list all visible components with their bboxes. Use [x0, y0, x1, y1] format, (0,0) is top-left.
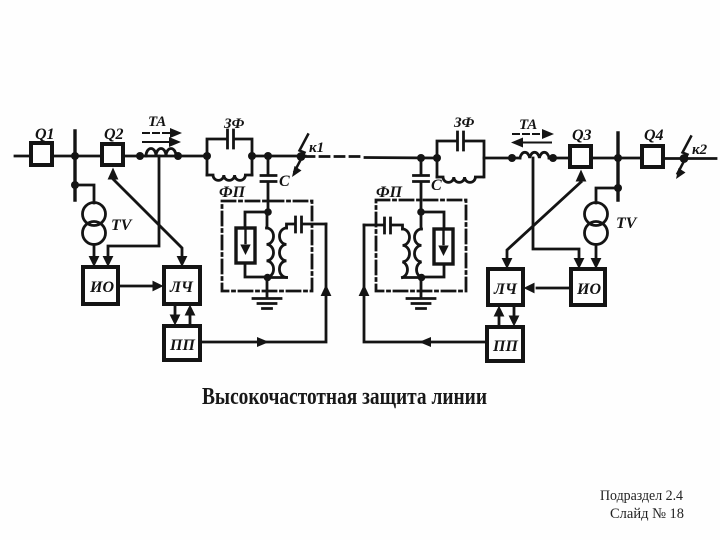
svg-text:ФП: ФП — [219, 184, 246, 201]
svg-text:ТА: ТА — [148, 114, 166, 130]
svg-text:ИО: ИО — [89, 279, 114, 296]
svg-text:ЛЧ: ЛЧ — [169, 279, 194, 296]
svg-text:Q3: Q3 — [572, 127, 592, 144]
svg-text:ТV: ТV — [616, 215, 638, 232]
svg-text:к1: к1 — [309, 140, 324, 156]
svg-text:ФП: ФП — [376, 184, 403, 201]
svg-text:ПП: ПП — [492, 338, 518, 355]
svg-text:Подраздел 2.4: Подраздел 2.4 — [600, 488, 683, 504]
svg-text:ИО: ИО — [576, 281, 601, 298]
svg-text:ЗФ: ЗФ — [453, 115, 475, 131]
svg-text:ТА: ТА — [519, 117, 537, 133]
svg-text:ЛЧ: ЛЧ — [493, 281, 518, 298]
svg-text:ТV: ТV — [111, 217, 133, 234]
svg-text:к2: к2 — [692, 142, 708, 158]
svg-text:Q4: Q4 — [644, 127, 664, 144]
svg-text:ПП: ПП — [169, 337, 195, 354]
svg-text:Слайд № 18: Слайд № 18 — [610, 506, 684, 522]
svg-text:Q1: Q1 — [35, 126, 55, 143]
svg-text:ЗФ: ЗФ — [223, 116, 245, 132]
svg-text:Высокочастотная защита линии: Высокочастотная защита линии — [202, 384, 487, 410]
svg-text:С: С — [431, 177, 442, 194]
svg-text:Q2: Q2 — [104, 126, 124, 143]
svg-text:С: С — [279, 173, 290, 190]
